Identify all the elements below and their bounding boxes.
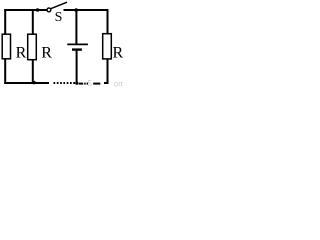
svg-text:R: R (113, 44, 124, 61)
svg-text:S: S (55, 10, 63, 25)
svg-text:om: om (114, 80, 123, 89)
svg-text:R: R (16, 44, 27, 61)
svg-text:R: R (41, 44, 52, 61)
svg-text:5: 5 (88, 79, 93, 88)
